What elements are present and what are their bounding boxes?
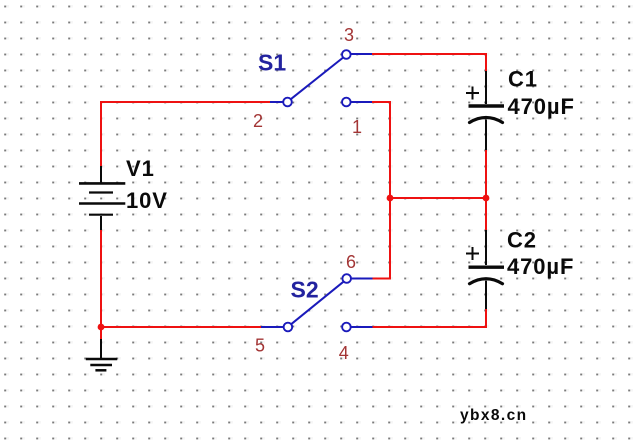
svg-text:C2: C2 — [507, 228, 537, 253]
svg-text:6: 6 — [346, 252, 356, 272]
svg-text:5: 5 — [255, 336, 265, 356]
svg-text:470µF: 470µF — [507, 254, 574, 279]
svg-text:470µF: 470µF — [508, 94, 575, 119]
svg-text:2: 2 — [253, 111, 263, 131]
svg-text:S1: S1 — [258, 50, 286, 76]
svg-text:1: 1 — [352, 117, 362, 137]
svg-text:10V: 10V — [126, 188, 168, 213]
svg-text:C1: C1 — [508, 67, 538, 92]
svg-text:ybx8.cn: ybx8.cn — [460, 407, 528, 424]
svg-text:S2: S2 — [291, 277, 319, 303]
svg-text:4: 4 — [339, 343, 349, 363]
svg-text:V1: V1 — [126, 156, 155, 181]
svg-text:3: 3 — [344, 25, 354, 45]
